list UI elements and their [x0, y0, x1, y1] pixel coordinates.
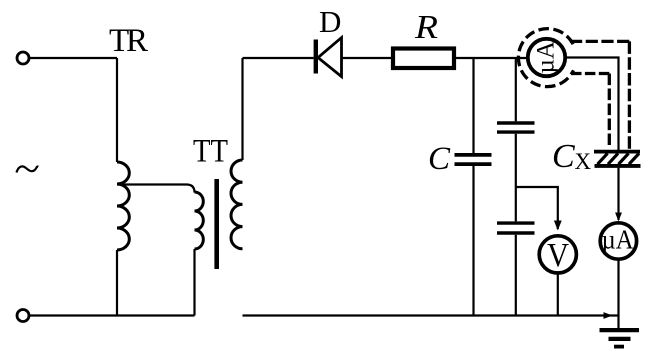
wire: junction to capacitor C [472, 58, 474, 153]
svg-text:D: D [319, 4, 341, 39]
guard shield dashed circle [518, 29, 573, 87]
wire: junction to divider capacitor C1 [515, 58, 517, 121]
svg-text:TR: TR [109, 23, 148, 59]
test object Cx bottom electrode [595, 164, 641, 168]
wire: bottom bus primary side [29, 314, 194, 316]
divider capacitor C2 top plate [497, 221, 535, 224]
guard shield dashed lead top horizontal [570, 40, 629, 43]
capacitor C top plate [455, 153, 492, 157]
wire: voltmeter to bottom bus [557, 273, 559, 316]
autotransformer TR winding [117, 162, 129, 250]
test object Cx hatching [598, 153, 640, 164]
divider capacitor C2 bottom plate [497, 231, 535, 234]
voltmeter V [539, 236, 576, 273]
microammeter P1 (guarded) [528, 39, 565, 76]
wire: Cx to microammeter P2 [617, 168, 619, 220]
wire: C2 to bottom bus [515, 235, 517, 316]
wire: top bus TT to diode [243, 57, 314, 59]
wire: TT primary bottom lead [193, 249, 195, 316]
bottom bus wire secondary side [243, 314, 619, 316]
ground symbol bar 2 [609, 337, 631, 341]
wire: capacitor C to bottom bus [472, 166, 474, 316]
divider capacitor C1 bottom plate [497, 130, 535, 133]
wire: TR tap to TT primary [117, 185, 195, 193]
transformer TT secondary winding [231, 160, 243, 249]
test object Cx top electrode [594, 150, 640, 154]
wire: microammeter P1 to Cx [566, 58, 619, 151]
resistor R [393, 49, 454, 69]
current direction arrow on bottom bus [604, 312, 613, 319]
svg-text:V: V [547, 237, 569, 274]
ground symbol bar 1 [600, 328, 640, 332]
wire: microammeter P2 to ground [617, 259, 619, 328]
svg-text:C: C [428, 141, 451, 177]
transformer TT primary winding [195, 192, 204, 249]
svg-text:µA: µA [602, 225, 634, 255]
guard shield dashed lead top vertical [628, 41, 631, 149]
svg-text:R: R [414, 9, 438, 46]
diode D triangle [318, 38, 342, 77]
wire: TR top lead [116, 58, 118, 162]
transformer TT core [214, 179, 219, 269]
label ~ (AC source) [17, 166, 39, 172]
diode D cathode bar [314, 40, 318, 74]
ground symbol bar 3 [614, 345, 624, 349]
wire: resistor to microammeter [456, 57, 527, 59]
svg-text:C: C [552, 138, 575, 175]
microammeter P2 [600, 223, 636, 259]
terminal J1 top-left [17, 52, 29, 64]
svg-text:X: X [575, 149, 592, 174]
arrow into voltmeter [554, 221, 562, 231]
guard shield dashed lead bottom vertical [608, 74, 611, 146]
divider capacitor C1 top plate [497, 121, 535, 124]
wire: C1 to C2 [515, 134, 517, 222]
wire: divider tap to voltmeter [516, 187, 558, 229]
wire: top-left terminal to TR top [29, 57, 117, 59]
wire: TT secondary top lead [241, 58, 243, 160]
terminal J2 bottom-left [17, 310, 29, 322]
svg-text:µA: µA [533, 41, 560, 73]
capacitor C bottom plate [455, 162, 492, 166]
arrow into microammeter P2 [615, 213, 622, 222]
guard shield dashed lead bottom horizontal [571, 72, 609, 75]
wire: diode to resistor [342, 57, 392, 59]
svg-text:TT: TT [193, 134, 228, 170]
wire: TR bottom lead [116, 250, 118, 316]
